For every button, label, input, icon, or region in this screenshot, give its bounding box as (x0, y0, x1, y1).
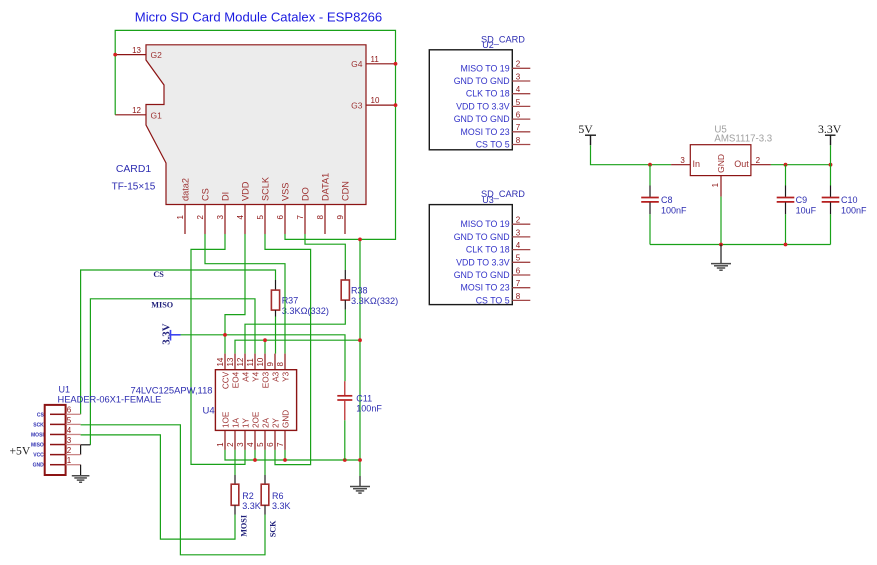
svg-text:8: 8 (276, 362, 285, 367)
svg-text:2: 2 (196, 215, 205, 220)
junction GND at pin 13 (113, 53, 117, 57)
wire GND shield loop (G1/G2 left, top, G3/G4 right, to VSS) (115, 30, 395, 239)
wire R37 bottom to U4 3A pin 9 (275, 317, 277, 354)
svg-text:EO4: EO4 (231, 371, 240, 388)
svg-text:HEADER-06X1-FEMALE: HEADER-06X1-FEMALE (58, 395, 162, 405)
U1 pin 1 (GND) (33, 456, 81, 469)
svg-text:3.3KΩ(332): 3.3KΩ(332) (282, 306, 329, 316)
U4 pin 9 (3A) top (266, 354, 280, 382)
svg-text:1: 1 (176, 215, 185, 220)
svg-text:R38: R38 (351, 285, 368, 295)
svg-text:SCLK: SCLK (260, 176, 270, 201)
CARD1 pin 8 (DATA1) (316, 173, 330, 234)
wire SCK from R6 bottom to header pin 5 (81, 425, 265, 555)
svg-text:GND TO GND: GND TO GND (454, 232, 510, 242)
regulator U5 body (690, 145, 751, 176)
svg-text:2: 2 (756, 156, 761, 165)
svg-text:8: 8 (516, 136, 521, 145)
wire U5 pin 1 to ground rail (720, 197, 722, 245)
junction gnd rail at C9 (784, 243, 788, 247)
svg-text:VDD: VDD (240, 181, 250, 201)
power flag 3.3V (left, blue) (160, 323, 180, 344)
svg-text:1: 1 (711, 182, 720, 187)
U1 pin 6 (CS) (37, 406, 81, 419)
svg-text:8: 8 (516, 292, 521, 301)
svg-text:2: 2 (516, 216, 521, 225)
svg-text:C10: C10 (841, 195, 858, 205)
U2 pin 3 (GND TO GND) (454, 72, 531, 86)
svg-text:GND TO GND: GND TO GND (454, 114, 510, 124)
U1 pin 4 (MOSI) (31, 426, 81, 439)
svg-text:MISO: MISO (31, 443, 44, 449)
svg-text:Micro SD Card Module Catalex -: Micro SD Card Module Catalex - ESP8266 (135, 10, 382, 25)
capacitor C10 (822, 186, 840, 245)
svg-text:VDD TO 3.3V: VDD TO 3.3V (456, 101, 510, 111)
svg-text:1OE: 1OE (221, 411, 230, 428)
junction 3.3V rail at U4 VCC (223, 333, 227, 337)
svg-text:U2: U2 (482, 40, 494, 50)
svg-text:C11: C11 (356, 394, 372, 404)
svg-text:13: 13 (226, 357, 235, 366)
svg-text:MOSI TO 23: MOSI TO 23 (461, 283, 510, 293)
CARD1 pin 1 (data2) (176, 178, 190, 234)
svg-text:U3: U3 (482, 195, 494, 205)
ground symbol at header (72, 476, 90, 482)
junction gnd rail at U5 pin 1 (719, 243, 723, 247)
U4 pin 7 (GND) bottom (276, 410, 290, 450)
U4 pin 2 (1A) bottom (226, 417, 240, 449)
svg-text:7: 7 (516, 123, 521, 132)
svg-text:CDN: CDN (340, 181, 350, 201)
svg-text:4: 4 (516, 85, 521, 94)
svg-text:6: 6 (276, 215, 285, 220)
wire GND bottom rail under U4 (225, 450, 360, 460)
U3 pin 2 (MISO TO 19) (461, 216, 531, 230)
wire MOSI from R2 bottom to header pin 4 (81, 435, 235, 539)
svg-text:13: 13 (132, 46, 141, 55)
U3 pin 7 (MOSI TO 23) (461, 279, 531, 293)
wire module DO pin 7 to R38 top (305, 234, 345, 270)
U3 pin 4 (CLK TO 18) (466, 241, 530, 255)
svg-text:G3: G3 (351, 101, 363, 111)
U4 pin 14 (VCC) top (216, 354, 230, 389)
U1 pin 3 (MISO) (31, 436, 81, 449)
svg-text:TF-15×15: TF-15×15 (112, 182, 156, 193)
CARD1 pin 5 (SCLK) (256, 176, 270, 234)
junction GND rail at U4 pin 7 (283, 458, 287, 462)
SD card connector U3 body (429, 205, 512, 305)
U4 pin 10 (3OE) top (256, 354, 270, 389)
wire module CS pin 2 to U4 3Y pin 8 (205, 234, 285, 354)
svg-text:C9: C9 (796, 195, 808, 205)
capacitor C11 (337, 381, 352, 460)
U4 pin 4 (2OE) bottom (246, 411, 260, 450)
svg-text:5: 5 (516, 98, 521, 107)
junction GND on VSS wire (358, 238, 362, 242)
U4 pin 6 (2Y) bottom (266, 417, 280, 449)
svg-text:CCV: CCV (221, 371, 230, 389)
svg-text:5: 5 (516, 254, 521, 263)
U3 pin 6 (GND TO GND) (454, 266, 531, 280)
svg-text:In: In (693, 159, 701, 169)
wire 3.3V rail to C11 top (181, 335, 346, 381)
svg-text:2Y: 2Y (271, 417, 280, 428)
capacitor C9 (777, 186, 795, 245)
svg-text:11: 11 (246, 358, 255, 367)
wire 3.3V from module VDD pin 4 jog to rail and U4 VCC pin 14 (225, 234, 245, 354)
svg-text:1A: 1A (231, 417, 240, 428)
svg-text:MOSI: MOSI (239, 515, 248, 537)
wire CS from header pin 6 up and right to R37 top (81, 270, 276, 414)
U4 pin 11 (4Y) top (246, 354, 260, 382)
resistor R6 (261, 475, 269, 515)
connector U1 body (45, 405, 66, 475)
svg-text:CS: CS (200, 188, 210, 201)
svg-text:3: 3 (516, 72, 521, 81)
svg-text:3.3V: 3.3V (818, 122, 842, 136)
wire GND main vertical drop (359, 239, 361, 476)
svg-text:MOSI TO 23: MOSI TO 23 (461, 127, 510, 137)
svg-text:DI: DI (220, 192, 230, 201)
svg-text:100nF: 100nF (356, 404, 382, 414)
U2 pin 4 (CLK TO 18) (466, 85, 530, 99)
junction GND rail at C11 (343, 458, 347, 462)
junction out at C9 (784, 163, 788, 167)
wire 3.3V flag down (830, 145, 832, 185)
svg-text:MOSI: MOSI (31, 432, 44, 438)
wire U4 2A pin 5 down to R6 (264, 450, 266, 475)
svg-text:MISO TO 19: MISO TO 19 (461, 219, 510, 229)
wire U5 Out to 3.3V flag and C9 C10 (771, 164, 831, 166)
CARD1 pin 13 (G2) (115, 46, 162, 60)
svg-text:CS TO 5: CS TO 5 (476, 140, 510, 150)
svg-text:3.3K: 3.3K (272, 501, 291, 511)
junction GND at 3OE drop (263, 338, 267, 342)
junction out at C10 (829, 163, 833, 167)
svg-text:10: 10 (371, 96, 380, 105)
svg-text:10uF: 10uF (796, 205, 817, 215)
svg-text:GND: GND (716, 154, 726, 173)
U4 pin 8 (3Y) top (276, 354, 290, 382)
svg-text:Y3: Y3 (281, 371, 290, 381)
svg-text:11: 11 (371, 55, 380, 64)
wire header pin 1 GND lead (80, 465, 82, 476)
wire module DI pin 3 down-around to U4 1Y pin 3 (191, 234, 245, 464)
CARD1 pin 4 (VDD) (236, 181, 250, 234)
wire C9 riser (785, 165, 787, 186)
wire ground rail of regulator section (650, 244, 831, 246)
svg-text:3.3KΩ(332): 3.3KΩ(332) (351, 296, 398, 306)
svg-text:GND TO GND: GND TO GND (454, 270, 510, 280)
svg-text:DATA1: DATA1 (320, 173, 330, 201)
svg-text:GND TO GND: GND TO GND (454, 76, 510, 86)
svg-text:A4: A4 (241, 371, 250, 381)
wire module SCLK pin 5 down-around to U4 2Y pin 6 (265, 234, 311, 465)
wire R38 bottom to U4 4A pin 12 (245, 310, 345, 354)
svg-text:4: 4 (67, 426, 72, 435)
U5 pin 1 (GND) (711, 154, 726, 197)
junction GND rail meets vertical (358, 458, 362, 462)
svg-text:7: 7 (296, 215, 305, 220)
CARD1 pin 9 (CDN) (336, 181, 350, 234)
svg-text:U1: U1 (59, 385, 71, 395)
svg-text:12: 12 (132, 106, 141, 115)
U4 pin 1 (1OE) bottom (216, 411, 230, 450)
svg-text:CLK TO 18: CLK TO 18 (466, 245, 510, 255)
junction GND at pin 10 (394, 103, 398, 107)
svg-text:2: 2 (516, 60, 521, 69)
svg-text:Y4: Y4 (251, 371, 260, 381)
svg-text:R6: R6 (272, 491, 284, 501)
wire GND stub U4 pin 7 (284, 450, 286, 460)
svg-text:5: 5 (256, 215, 265, 220)
svg-text:7: 7 (276, 442, 285, 447)
U3 pin 8 (CS TO 5) (476, 292, 531, 306)
svg-text:CS TO 5: CS TO 5 (476, 295, 510, 305)
svg-text:SCK: SCK (268, 520, 277, 537)
wire C8 riser (649, 165, 651, 186)
svg-text:3: 3 (236, 442, 245, 447)
buffer IC U4 body (215, 370, 296, 431)
svg-text:100nF: 100nF (841, 205, 867, 215)
CARD1 pin 3 (DI) (216, 192, 230, 234)
svg-text:9: 9 (266, 362, 275, 367)
svg-text:1: 1 (67, 456, 72, 465)
U2 pin 8 (CS TO 5) (476, 136, 531, 150)
svg-text:10: 10 (256, 357, 265, 366)
svg-text:3: 3 (516, 228, 521, 237)
CARD1 pin 12 (G1) (115, 106, 162, 120)
svg-text:14: 14 (216, 357, 225, 366)
svg-text:5: 5 (256, 442, 265, 447)
svg-text:3.3K: 3.3K (242, 501, 261, 511)
wire GND to U4 3OE pin 10 (264, 340, 266, 353)
svg-text:6: 6 (266, 442, 275, 447)
svg-text:CLK TO 18: CLK TO 18 (466, 89, 510, 99)
svg-text:7: 7 (516, 279, 521, 288)
svg-text:6: 6 (516, 266, 521, 275)
junction GND at pin 11 (394, 62, 398, 66)
resistor R38 (341, 270, 349, 310)
svg-text:CS: CS (37, 412, 45, 418)
svg-text:DO: DO (300, 187, 310, 201)
capacitor C8 (641, 186, 659, 245)
svg-text:CS: CS (153, 270, 164, 279)
U1 pin 2 (VCC) (33, 446, 80, 459)
svg-text:R37: R37 (282, 295, 299, 305)
U4 pin 5 (2A) bottom (256, 417, 270, 449)
U3 pin 3 (GND TO GND) (454, 228, 531, 242)
svg-text:+5V: +5V (10, 445, 31, 458)
svg-text:CARD1: CARD1 (116, 164, 151, 175)
U2 pin 2 (MISO TO 19) (461, 60, 531, 74)
svg-text:3: 3 (216, 215, 225, 220)
svg-text:5: 5 (67, 416, 72, 425)
U2 pin 6 (GND TO GND) (454, 111, 531, 125)
U4 pin 12 (4A) top (236, 354, 250, 382)
svg-text:4: 4 (516, 241, 521, 250)
svg-text:6: 6 (516, 111, 521, 120)
svg-text:100nF: 100nF (661, 205, 687, 215)
svg-text:A3: A3 (271, 371, 280, 381)
junction 5V at C8 (648, 163, 652, 167)
power flag 5V (578, 122, 596, 145)
U5 pin 2 (Out) (734, 156, 771, 169)
U1 pin 5 (SCK) (33, 416, 80, 429)
svg-text:VSS: VSS (280, 183, 290, 201)
svg-text:GND: GND (281, 410, 290, 428)
U3 pin 5 (VDD TO 3.3V) (456, 254, 530, 268)
svg-text:G2: G2 (151, 50, 163, 60)
CARD1 pin 2 (CS) (196, 188, 210, 234)
U2 pin 5 (VDD TO 3.3V) (456, 98, 530, 112)
wire GND stub U4 pin 4 (254, 450, 256, 460)
svg-text:3.3V: 3.3V (160, 323, 172, 344)
black link header pin3 to pin2 VCC (80, 445, 82, 455)
svg-text:MISO: MISO (151, 301, 173, 310)
junction GND rail at U4 pin 4 (253, 458, 257, 462)
svg-text:4: 4 (236, 215, 245, 220)
U4 pin 13 (4OE) top (226, 354, 240, 389)
svg-text:MISO TO 19: MISO TO 19 (461, 63, 510, 73)
svg-text:1: 1 (216, 442, 225, 447)
svg-text:C8: C8 (661, 195, 673, 205)
wire 5V to C8 and U5 In (591, 145, 672, 165)
wire MISO from header pin 3 riser to U4 4Y pin 11 (90, 299, 255, 445)
junction GND wire meets vertical (358, 338, 362, 342)
svg-text:2: 2 (67, 446, 72, 455)
resistor R2 (231, 475, 239, 515)
svg-text:3: 3 (67, 436, 72, 445)
svg-text:Out: Out (734, 159, 749, 169)
svg-text:SCK: SCK (33, 422, 44, 428)
svg-text:9: 9 (336, 215, 345, 220)
ground symbol near C11 (350, 476, 370, 493)
svg-text:4: 4 (246, 442, 255, 447)
svg-text:G4: G4 (351, 59, 363, 69)
wire GND to U4 4OE pin 13 (235, 340, 360, 353)
svg-text:data2: data2 (180, 178, 190, 201)
svg-text:6: 6 (67, 406, 72, 415)
wire U4 1A pin 2 down to R2 (234, 450, 236, 475)
svg-text:8: 8 (316, 215, 325, 220)
U4 pin 3 (1Y) bottom (236, 417, 250, 449)
ground symbol at U5 (711, 264, 731, 271)
SD card module CARD1 body (146, 45, 366, 205)
svg-text:VDD TO 3.3V: VDD TO 3.3V (456, 257, 510, 267)
CARD1 pin 11 (G4) (351, 55, 395, 69)
svg-text:12: 12 (236, 357, 245, 366)
svg-text:3: 3 (680, 156, 685, 165)
svg-text:R2: R2 (242, 491, 254, 501)
CARD1 pin 10 (G3) (351, 96, 395, 110)
svg-text:2A: 2A (261, 417, 270, 428)
black link header pin3 to MISO riser (81, 444, 91, 446)
svg-text:VCC: VCC (33, 453, 44, 459)
svg-text:2: 2 (226, 442, 235, 447)
svg-text:EO3: EO3 (261, 371, 270, 388)
wire U5 ground lead (720, 245, 722, 264)
power flag 3.3V (right) (818, 122, 842, 145)
svg-text:AMS1117-3.3: AMS1117-3.3 (714, 134, 772, 145)
svg-text:5V: 5V (578, 122, 593, 136)
SD card connector U2 body (429, 50, 512, 150)
svg-text:G1: G1 (151, 110, 163, 120)
svg-text:1Y: 1Y (241, 417, 250, 428)
resistor R37 (271, 280, 279, 317)
svg-text:GND: GND (33, 463, 45, 469)
svg-text:2OE: 2OE (251, 411, 260, 428)
CARD1 pin 7 (DO) (296, 187, 310, 234)
U2 pin 7 (MOSI TO 23) (461, 123, 531, 137)
CARD1 pin 6 (VSS) (276, 183, 290, 234)
svg-text:U4: U4 (203, 406, 215, 417)
U5 pin 3 (In) (671, 156, 700, 169)
